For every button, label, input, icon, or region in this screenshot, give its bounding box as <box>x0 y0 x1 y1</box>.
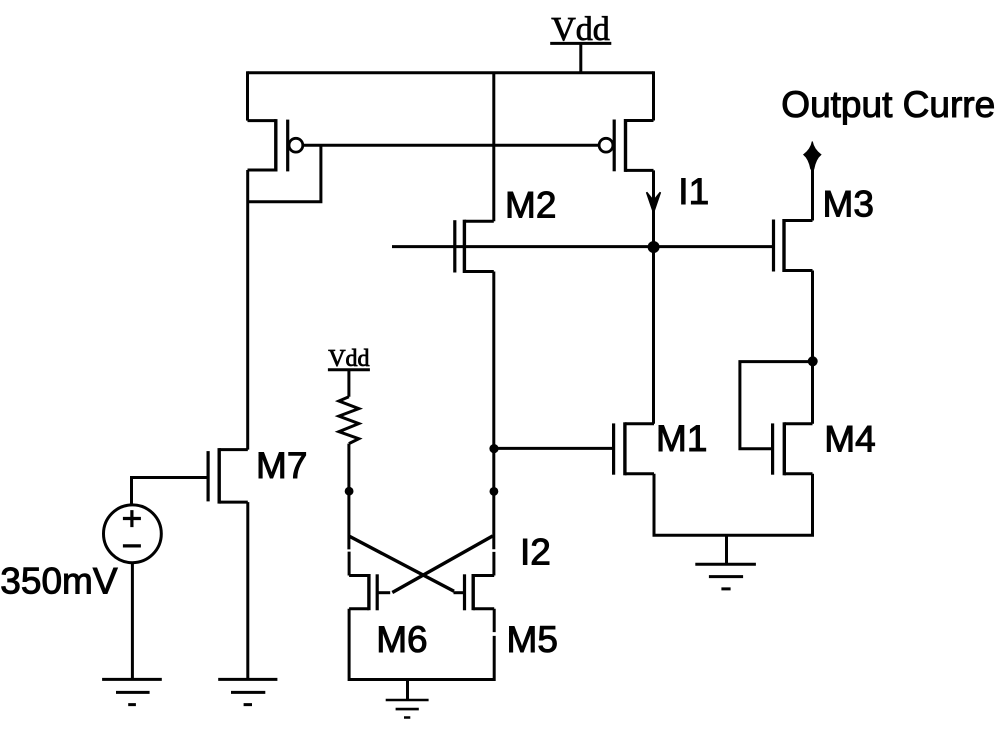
wire source bottom to ground <box>131 563 134 680</box>
svg-text:350mV: 350mV <box>0 560 118 601</box>
wire diode-connection of left PMOS (gate to drain) <box>248 145 321 202</box>
svg-text:Vdd: Vdd <box>551 11 610 48</box>
node dot right branch <box>490 487 499 496</box>
wire M5/M6 sources to common rail <box>349 609 494 680</box>
svg-text:M7: M7 <box>256 445 307 486</box>
wire M1 gate lead <box>494 447 614 450</box>
resistor (bias, unlabeled) <box>339 397 359 444</box>
transistor M1 <box>614 422 654 475</box>
ground (350mV) <box>102 679 162 704</box>
wire node down to M1 drain <box>652 247 655 424</box>
svg-text:M2: M2 <box>505 185 556 226</box>
wire I1 branch (right PMOS drain down to node) <box>652 170 655 247</box>
node dot left branch <box>345 487 354 496</box>
node M4 gate-drain dot <box>808 356 818 366</box>
svg-text:M4: M4 <box>824 419 875 460</box>
wire right rail drop <box>652 71 655 120</box>
svg-text:M6: M6 <box>376 619 427 660</box>
svg-text:M5: M5 <box>507 619 558 660</box>
wire M3 output lead <box>811 150 814 221</box>
wire Vdd top rail <box>248 71 654 74</box>
ground (M7) <box>218 679 277 704</box>
wire left branch (resistor to M6 drain) <box>347 444 350 576</box>
svg-text:I1: I1 <box>678 171 709 212</box>
wire left rail drop <box>246 71 249 120</box>
wire M1/M4 sources to common ground rail <box>654 474 813 536</box>
ground (M1/M4 common) <box>695 535 756 589</box>
transistor M5 <box>454 574 495 610</box>
transistor M6 <box>349 574 390 610</box>
wire M2 source down to M5 drain <box>492 272 495 576</box>
svg-text:Output Current: Output Current <box>781 84 995 125</box>
wire PMOS gate bus <box>303 144 599 147</box>
voltage source 350mV <box>103 505 161 563</box>
transistor M3 <box>774 219 813 272</box>
transistor PMOS left (mirror device, unlabeled) <box>248 119 303 171</box>
wire cross-couple diagonal (M5 drain to M6 gate) <box>392 536 493 593</box>
transistor M4 <box>773 422 813 475</box>
node Vdd (top supply symbol) <box>550 11 611 73</box>
wire M4 diode loop <box>740 362 813 449</box>
node dot M1-gate junction <box>489 444 498 453</box>
svg-text:I2: I2 <box>520 532 551 573</box>
wire cross-couple diagonal (M6 drain to M5 gate) <box>349 536 454 591</box>
arrowhead I1 (down) <box>647 192 661 212</box>
wire M7 gate lead to source <box>132 478 209 505</box>
wire M2 drain to top rail <box>492 73 495 221</box>
node junction dot (gate bus / I1) <box>648 241 660 253</box>
arrowhead output current (up) <box>804 142 821 170</box>
svg-text:M1: M1 <box>656 418 707 459</box>
transistor M7 <box>208 448 248 504</box>
wire M3 source to M4 drain <box>811 271 814 424</box>
svg-text:M3: M3 <box>823 184 874 225</box>
transistor M2 <box>455 220 494 273</box>
wire left drain down to M7 <box>246 170 249 450</box>
svg-text:Vdd: Vdd <box>328 346 369 372</box>
node Vdd (resistor supply symbol) <box>328 346 370 397</box>
wire gate bus M2 to M3 <box>392 245 774 248</box>
transistor PMOS right (mirror device, unlabeled) <box>599 119 653 172</box>
wire M7 source to ground <box>246 502 249 679</box>
ground (M5/M6 pair) <box>386 680 429 718</box>
